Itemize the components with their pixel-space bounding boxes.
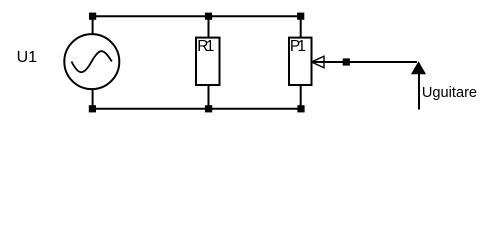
wire right vertical [300,16,302,109]
P1 wiper arrowhead [312,56,325,68]
wire top rail [93,15,301,17]
svg-text:R1: R1 [197,38,213,55]
potentiometer P1 [289,38,312,85]
node junction top middle [205,13,212,20]
AC voltage source U1 [64,34,119,89]
node junction bottom right [297,105,304,112]
node junction bottom left [89,105,96,112]
wire middle vertical [208,16,210,109]
svg-text:U1: U1 [17,49,38,66]
resistor R1 [196,38,220,85]
svg-text:Uguitare: Uguitare [422,85,477,101]
node junction top left [89,13,96,20]
voltage arrow Uguitare [412,62,425,74]
node junction top right [297,13,304,20]
wire wiper output [312,61,418,63]
svg-text:P1: P1 [290,38,306,55]
wire output vertical drop [418,63,420,110]
wire bottom rail [92,108,301,110]
node junction wiper line [343,58,350,65]
wire left vertical [92,16,94,109]
node junction bottom middle [205,105,212,112]
